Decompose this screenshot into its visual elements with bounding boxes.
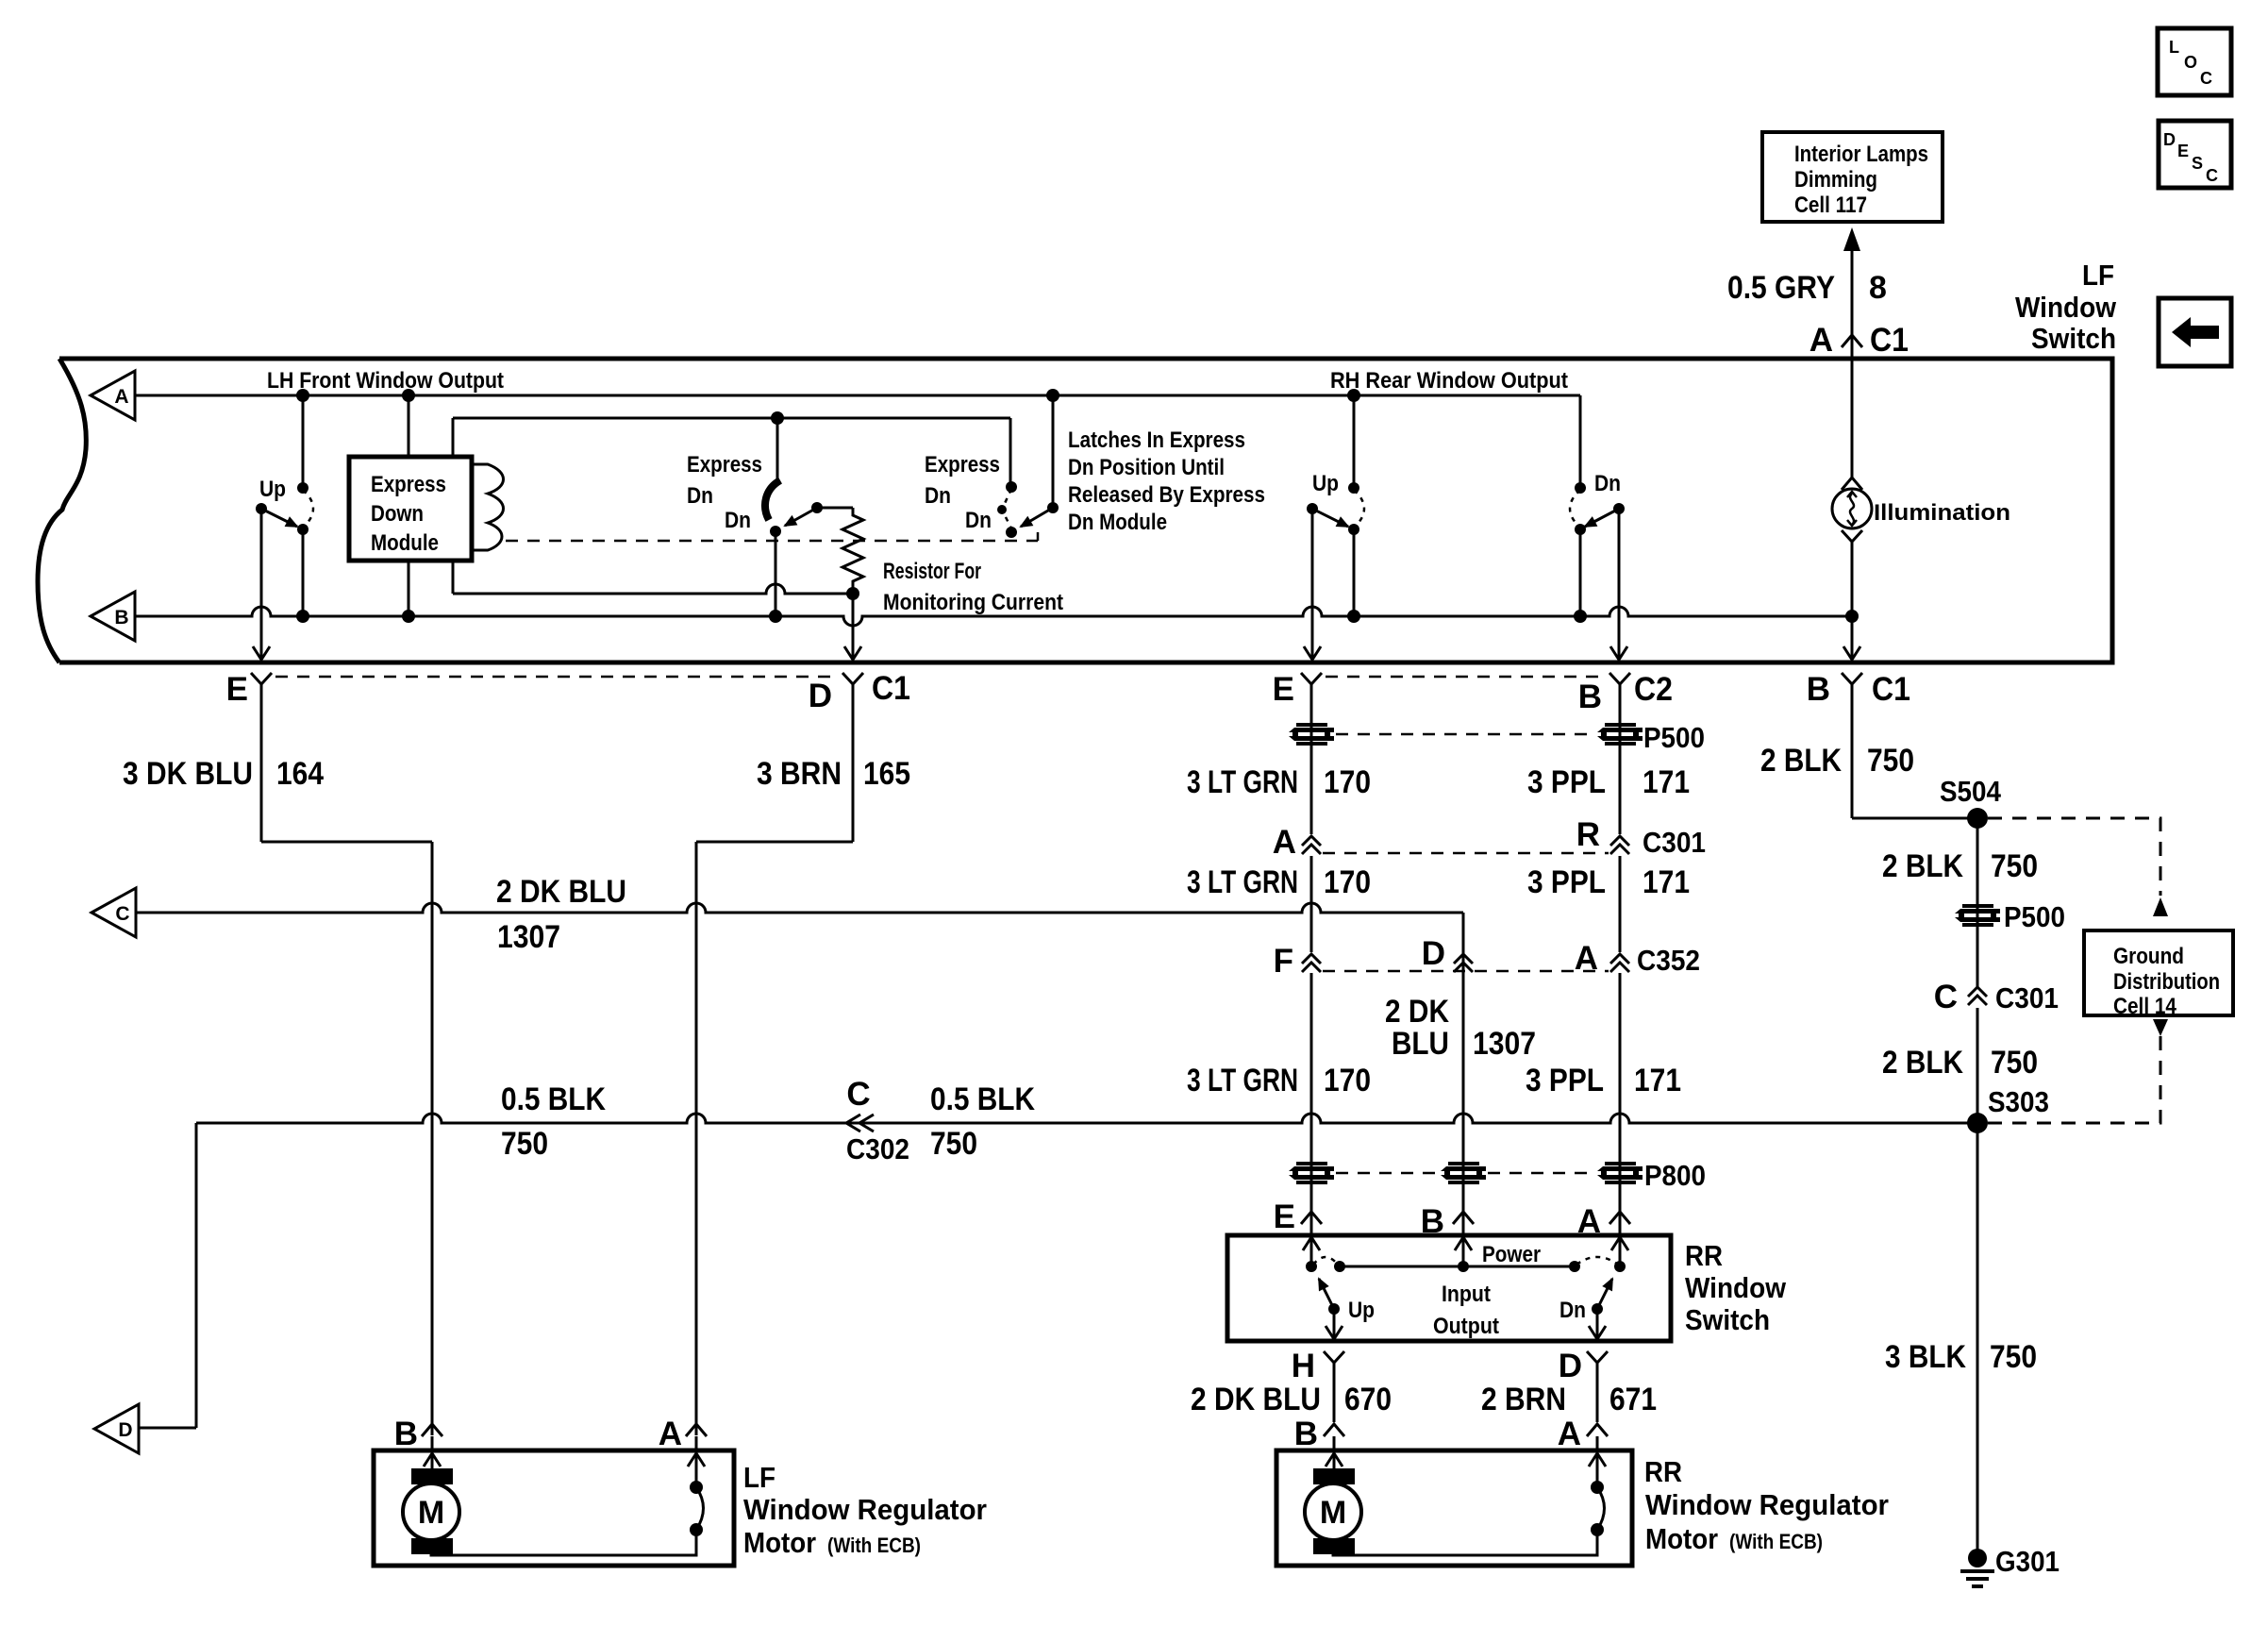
svg-text:C: C — [1934, 979, 1958, 1015]
svg-text:C1: C1 — [1870, 322, 1909, 359]
svg-text:750: 750 — [501, 1126, 548, 1162]
LF window regulator motor box — [374, 1450, 734, 1566]
wire 2 BLK 750 S504 to C301 — [1976, 818, 1979, 987]
svg-text:D: D — [118, 1419, 132, 1441]
svg-text:E: E — [2177, 142, 2189, 160]
LF motor ECB breaker — [695, 1450, 698, 1487]
wire S2 bottom contact to B line — [775, 531, 777, 616]
switch S2 express flipper — [765, 480, 780, 520]
ground G301 — [1968, 1549, 1987, 1567]
svg-text:170: 170 — [1324, 1063, 1371, 1098]
svg-text:Power: Power — [1482, 1242, 1541, 1267]
svg-text:3 PPL: 3 PPL — [1527, 864, 1606, 900]
RR motor bottom loop — [1333, 1530, 1597, 1555]
connector C352 row — [1302, 954, 1321, 972]
wire LH front window output (A line) — [135, 394, 1580, 397]
switch S1 top contact — [297, 482, 309, 494]
wire 2 DK BLU 1307 (C line) — [136, 903, 1463, 913]
wire illumination to B C1 output — [1851, 616, 1854, 660]
svg-text:(With ECB): (With ECB) — [827, 1534, 921, 1557]
svg-text:Switch: Switch — [1685, 1303, 1770, 1336]
connector C302 — [846, 1115, 874, 1131]
module coil — [472, 464, 504, 550]
svg-text:Cell 14: Cell 14 — [2113, 994, 2177, 1019]
svg-text:Motor: Motor — [1645, 1522, 1718, 1555]
switch S3 bottom contact — [1006, 527, 1017, 538]
svg-text:Resistor For: Resistor For — [883, 559, 981, 584]
svg-text:2 BRN: 2 BRN — [1481, 1382, 1566, 1417]
svg-text:Window: Window — [1685, 1271, 1787, 1304]
svg-text:Dn Module: Dn Module — [1068, 510, 1167, 535]
node loop-top junction x824 — [771, 411, 784, 425]
svg-text:Window Regulator: Window Regulator — [743, 1493, 987, 1526]
svg-text:Distribution: Distribution — [2113, 969, 2220, 995]
svg-text:2 BLK: 2 BLK — [1882, 1045, 1963, 1081]
RR switch dn arm — [1592, 1303, 1603, 1315]
switch S3 dashed throw — [1002, 489, 1011, 528]
wire 2 DK BLU 670 — [1324, 1351, 1344, 1371]
DESC legend box — [2159, 121, 2231, 188]
svg-text:170: 170 — [1324, 864, 1371, 900]
svg-text:171: 171 — [1643, 764, 1690, 800]
wire 3 PPL 171 mid — [1619, 856, 1622, 952]
switch S1 bottom contact — [297, 524, 309, 535]
wire S1 bottom contact to B line — [302, 529, 305, 616]
svg-text:D: D — [1422, 935, 1445, 972]
switch S1 up contact wire — [302, 395, 305, 488]
svg-text:750: 750 — [1990, 1339, 2037, 1375]
wire S3 arm to A line — [1052, 395, 1055, 508]
svg-text:D: D — [2163, 130, 2176, 149]
svg-text:P500: P500 — [1643, 721, 1705, 754]
switch S4 arm — [1307, 503, 1318, 514]
svg-text:1307: 1307 — [1473, 1026, 1536, 1062]
svg-text:BLU: BLU — [1392, 1026, 1449, 1062]
svg-text:B: B — [114, 607, 128, 629]
wire S1 arm to E output — [260, 509, 263, 660]
svg-text:671: 671 — [1609, 1382, 1657, 1417]
connector triangle B — [91, 592, 135, 641]
RR switch up output — [1333, 1309, 1336, 1339]
switch S5 bottom contact — [1575, 524, 1586, 535]
svg-text:2 BLK: 2 BLK — [1760, 743, 1842, 779]
svg-text:750: 750 — [1991, 1045, 2038, 1081]
svg-text:Ground: Ground — [2113, 944, 2184, 969]
LF motor A caret — [686, 1424, 707, 1436]
RR switch up arm — [1328, 1303, 1340, 1315]
wire B line — [135, 607, 1852, 626]
wire S2 arm to resistor — [817, 507, 853, 510]
svg-text:L: L — [2169, 38, 2179, 57]
switch S4 throw arc — [1354, 490, 1364, 528]
svg-text:S303: S303 — [1988, 1085, 2049, 1118]
connector C1 row — [251, 673, 272, 693]
svg-text:1307: 1307 — [497, 919, 560, 955]
wire express loop bottom (hop at x822) — [453, 584, 853, 594]
svg-text:2 DK: 2 DK — [1385, 994, 1449, 1030]
wire express loop left lower — [452, 561, 455, 594]
wire P800 to RR switch E — [1301, 1212, 1322, 1224]
svg-text:S504: S504 — [1940, 775, 2002, 808]
switch S2 bottom contact — [770, 526, 781, 537]
node B-line junction x1675 — [1574, 610, 1587, 623]
connector B C1 — [1842, 673, 1862, 693]
wire 3 DK BLU 164 — [260, 693, 263, 842]
LF motor M — [431, 1450, 434, 1468]
connector triangle D — [94, 1404, 139, 1453]
svg-text:0.5 BLK: 0.5 BLK — [930, 1081, 1035, 1117]
svg-text:Express: Express — [371, 472, 446, 497]
ground distribution cell 14 box — [2084, 930, 2233, 1015]
svg-text:A: A — [1809, 322, 1833, 359]
RR window regulator motor box — [1276, 1450, 1632, 1566]
wire S5 arm to B output — [1618, 509, 1621, 660]
svg-text:(With ECB): (With ECB) — [1729, 1530, 1823, 1553]
switch S1 arm — [256, 503, 267, 514]
node B-line junction x433 — [402, 610, 415, 623]
svg-text:C: C — [2200, 69, 2212, 88]
svg-text:LF: LF — [2082, 259, 2114, 292]
connector C2 row — [1301, 673, 1322, 693]
svg-text:A: A — [1558, 1416, 1581, 1452]
svg-text:P800: P800 — [1644, 1159, 1706, 1192]
svg-text:O: O — [2184, 53, 2197, 72]
resistor for monitoring current — [842, 508, 863, 594]
svg-text:Input: Input — [1442, 1282, 1491, 1307]
express down module box — [349, 457, 472, 561]
svg-text:3 BLK: 3 BLK — [1885, 1339, 1966, 1375]
connector C301 right — [1968, 987, 1987, 1005]
splice S303 — [1967, 1113, 1988, 1133]
LOC legend box — [2158, 28, 2231, 95]
connector triangle C — [92, 888, 136, 937]
node B-line junction x1963 — [1845, 610, 1859, 623]
svg-text:Dimming: Dimming — [1794, 167, 1877, 193]
wire resistor to D output — [852, 594, 855, 660]
svg-text:Motor: Motor — [743, 1526, 816, 1559]
RR switch input dashed arc right — [1576, 1257, 1618, 1265]
wire 3 LT GRN 170 mid — [1310, 856, 1313, 952]
RR switch dn output — [1596, 1309, 1599, 1339]
svg-text:170: 170 — [1324, 764, 1371, 800]
wire 3 LT GRN 170 upper — [1310, 693, 1313, 834]
dashed S504 to ground distribution — [1988, 818, 2160, 896]
svg-text:Dn: Dn — [687, 483, 713, 509]
wire 2 BRN 671 — [1587, 1351, 1608, 1371]
node A-line junction x433 — [402, 389, 415, 402]
wire 3 BLK 750 to G301 — [1976, 1123, 1979, 1558]
svg-text:165: 165 — [863, 756, 910, 792]
connector triangle A — [91, 371, 135, 420]
LF motor B caret — [422, 1424, 442, 1436]
svg-text:B: B — [394, 1416, 418, 1452]
svg-text:C1: C1 — [872, 670, 910, 707]
svg-text:C352: C352 — [1637, 944, 1700, 977]
RR window switch box — [1227, 1235, 1671, 1341]
svg-text:Express: Express — [687, 452, 762, 478]
switch S3 top contact — [1006, 481, 1017, 493]
svg-text:Window Regulator: Window Regulator — [1645, 1488, 1889, 1521]
connector C301 row — [1302, 836, 1321, 854]
svg-text:Latches In Express: Latches In Express — [1068, 427, 1245, 453]
wire 0.5 BLK 750 (ground line) — [196, 1114, 1977, 1123]
svg-text:Up: Up — [1348, 1298, 1375, 1323]
svg-text:M: M — [418, 1495, 444, 1531]
svg-text:C301: C301 — [1643, 826, 1706, 859]
wire illumination top — [1851, 360, 1854, 479]
node A-line junction x321 — [296, 389, 309, 402]
svg-text:RR: RR — [1644, 1455, 1682, 1488]
switch S2 arm — [811, 502, 823, 513]
svg-text:Dn: Dn — [1594, 471, 1621, 496]
svg-text:C1: C1 — [1872, 671, 1910, 708]
svg-text:8: 8 — [1869, 270, 1887, 306]
svg-text:C301: C301 — [1995, 981, 2059, 1014]
svg-text:S: S — [2192, 154, 2203, 173]
svg-text:2 DK BLU: 2 DK BLU — [496, 874, 626, 910]
wire P800 to RR switch A — [1609, 1212, 1630, 1224]
svg-text:Switch: Switch — [2031, 322, 2116, 355]
switch S3 arm — [1047, 502, 1059, 513]
wire module bottom to B line — [408, 561, 410, 616]
svg-text:Module: Module — [371, 530, 439, 556]
svg-text:164: 164 — [276, 756, 324, 792]
node B-line junction x1435 — [1347, 610, 1360, 623]
switch S4 up contact wire — [1353, 395, 1356, 488]
wire S4 arm to E output — [1311, 509, 1314, 660]
wire to D triangle — [195, 1123, 198, 1428]
svg-text:Express: Express — [925, 452, 1000, 478]
wire S5 bottom contact to B line — [1579, 529, 1582, 616]
svg-text:0.5 BLK: 0.5 BLK — [501, 1081, 606, 1117]
RR switch input dashed arc left — [1313, 1257, 1338, 1265]
svg-text:Output: Output — [1433, 1314, 1499, 1339]
svg-text:A: A — [1575, 940, 1598, 977]
RR switch input bus — [1334, 1261, 1345, 1272]
svg-text:E: E — [1273, 671, 1294, 708]
svg-text:3 BRN: 3 BRN — [757, 756, 842, 792]
svg-text:3 LT GRN: 3 LT GRN — [1187, 764, 1298, 800]
svg-text:C302: C302 — [846, 1132, 909, 1165]
svg-text:RR: RR — [1685, 1239, 1723, 1272]
svg-text:Interior Lamps: Interior Lamps — [1794, 142, 1928, 167]
illumination caret — [1842, 478, 1862, 490]
svg-text:3 PPL: 3 PPL — [1527, 764, 1606, 800]
LF motor bottom loop — [431, 1530, 696, 1555]
svg-text:Released By Express: Released By Express — [1068, 482, 1265, 508]
svg-text:B: B — [1807, 671, 1830, 708]
svg-text:171: 171 — [1643, 864, 1690, 900]
svg-text:Dn: Dn — [965, 508, 992, 533]
connector P500 pair — [1289, 723, 1334, 746]
svg-text:750: 750 — [1867, 743, 1914, 779]
svg-text:D: D — [1559, 1348, 1582, 1384]
LF window switch box outline — [59, 359, 2112, 662]
RR motor M — [1333, 1450, 1336, 1468]
nav arrow box — [2159, 298, 2231, 366]
wire 3 BRN 165 — [852, 693, 855, 842]
svg-text:M: M — [1320, 1495, 1346, 1531]
svg-text:A: A — [114, 386, 128, 408]
illumination lamp — [1832, 489, 1872, 528]
switch S5 top contact — [1575, 482, 1586, 494]
svg-text:3 PPL: 3 PPL — [1526, 1063, 1604, 1098]
wire module top — [408, 395, 410, 457]
wire loop-top to S2 — [776, 418, 779, 482]
wire 2 BLK 750 to S504 — [1851, 693, 1854, 818]
svg-text:750: 750 — [1991, 848, 2038, 884]
svg-text:Illumination: Illumination — [1874, 500, 2010, 526]
svg-text:3 DK BLU: 3 DK BLU — [123, 756, 253, 792]
svg-text:Dn Position Until: Dn Position Until — [1068, 455, 1225, 480]
switch S4 top contact — [1348, 482, 1359, 494]
wire P800 to RR switch B — [1453, 1212, 1474, 1224]
wire express loop top — [453, 417, 1010, 420]
svg-text:P500: P500 — [2004, 900, 2065, 933]
svg-text:LF: LF — [743, 1461, 775, 1494]
svg-text:Up: Up — [1312, 471, 1339, 496]
svg-text:3 LT GRN: 3 LT GRN — [1187, 1063, 1298, 1098]
node B-line junction x321 — [296, 610, 309, 623]
node A-line junction x1436 — [1347, 389, 1360, 402]
wire 2 DK BLU 1307 mid — [1462, 973, 1465, 1235]
switch S4 bottom contact — [1348, 524, 1359, 535]
svg-text:C: C — [2206, 166, 2218, 185]
svg-text:750: 750 — [930, 1126, 977, 1162]
svg-text:Down: Down — [371, 501, 424, 527]
svg-text:2 DK BLU: 2 DK BLU — [1191, 1382, 1321, 1417]
svg-text:C: C — [846, 1076, 870, 1113]
splice S504 — [1967, 808, 1988, 829]
node loop-bottom / resistor junction — [846, 587, 859, 600]
RR switch E input — [1310, 1235, 1313, 1266]
wire illumination bottom — [1851, 542, 1854, 616]
svg-text:C: C — [115, 903, 129, 925]
wire S4 bottom contact to B line — [1353, 529, 1356, 616]
svg-text:G301: G301 — [1995, 1545, 2060, 1578]
RR switch A input — [1619, 1235, 1622, 1266]
svg-text:Dn: Dn — [725, 508, 751, 533]
Interior Lamps Dimming Cell 117 box — [1762, 132, 1943, 222]
node A-line junction x1116 — [1046, 389, 1059, 402]
svg-text:C2: C2 — [1634, 671, 1673, 708]
RR switch power input — [1462, 1235, 1465, 1266]
svg-text:F: F — [1274, 943, 1293, 980]
wire 3 PPL 171 upper — [1619, 693, 1622, 834]
module latch dashed link — [506, 532, 1038, 541]
svg-text:R: R — [1576, 816, 1600, 853]
svg-text:B: B — [1294, 1416, 1318, 1452]
svg-text:Dn: Dn — [925, 483, 951, 509]
svg-text:E: E — [226, 671, 248, 708]
wire 2 BLK 750 C301 to S303 — [1976, 1008, 1979, 1123]
illumination Y — [1842, 530, 1862, 542]
svg-text:Dn: Dn — [1559, 1298, 1586, 1323]
wire 0.5 GRY 8 to interior lamps (arrow up) — [1851, 247, 1854, 359]
svg-text:171: 171 — [1634, 1063, 1681, 1098]
svg-text:Up: Up — [259, 477, 286, 502]
dashed ground distribution to S303 — [2153, 1019, 2168, 1036]
switch S1 throw arc — [303, 490, 313, 528]
svg-text:3 LT GRN: 3 LT GRN — [1187, 864, 1298, 900]
svg-text:670: 670 — [1344, 1382, 1392, 1417]
svg-text:A: A — [659, 1416, 682, 1452]
connector P500 right — [1955, 904, 2000, 927]
RR motor ECB breaker — [1596, 1450, 1599, 1487]
svg-text:H: H — [1292, 1348, 1315, 1384]
svg-text:A: A — [1273, 824, 1296, 861]
svg-text:RH Rear Window Output: RH Rear Window Output — [1330, 368, 1568, 394]
svg-text:0.5 GRY: 0.5 GRY — [1727, 270, 1835, 306]
switch S5 throw arc — [1570, 490, 1580, 528]
svg-text:2 BLK: 2 BLK — [1882, 848, 1963, 884]
svg-text:D: D — [809, 678, 832, 714]
svg-text:B: B — [1578, 679, 1602, 715]
svg-text:E: E — [1274, 1199, 1295, 1235]
svg-text:Window: Window — [2015, 291, 2117, 324]
node B-line junction x822 — [769, 610, 782, 623]
switch S5 arm — [1613, 503, 1625, 514]
svg-text:Cell 117: Cell 117 — [1794, 193, 1867, 218]
svg-text:Monitoring Current: Monitoring Current — [883, 590, 1063, 615]
connector P800 row — [1289, 1162, 1334, 1184]
